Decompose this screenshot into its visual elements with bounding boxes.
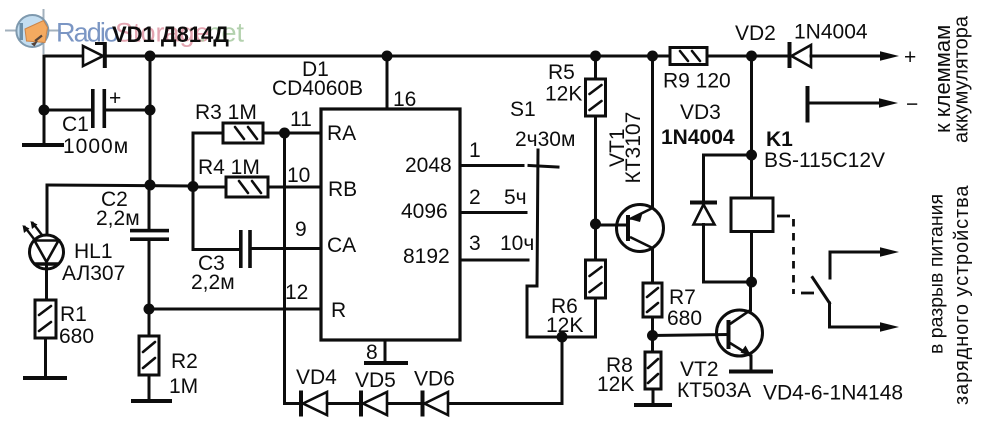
wire top rail right of R9 xyxy=(707,55,788,58)
svg-text:K1: K1 xyxy=(766,128,793,151)
wire R1 to ground xyxy=(44,338,47,377)
transistor VT1 KT3107 xyxy=(596,205,664,252)
wire S1 common xyxy=(527,150,596,337)
svg-text:1М: 1М xyxy=(169,375,198,398)
terminal bar input left xyxy=(24,143,62,147)
svg-text:8: 8 xyxy=(366,341,378,364)
ground pin8 xyxy=(366,361,406,365)
svg-text:2ч30м: 2ч30м xyxy=(515,128,575,151)
wire C1 left xyxy=(44,109,92,112)
svg-text:−: − xyxy=(906,93,918,116)
svg-text:КТ3107: КТ3107 xyxy=(622,112,645,184)
IC D1 CD4060B xyxy=(321,109,460,340)
svg-text:+: + xyxy=(109,87,121,110)
wire VT2 collector up xyxy=(749,282,752,310)
wire LED drop xyxy=(46,185,49,235)
svg-text:2,2м: 2,2м xyxy=(191,271,235,294)
svg-text:1000м: 1000м xyxy=(63,135,129,158)
wire relay rail lower xyxy=(750,232,753,283)
svg-text:+: + xyxy=(904,46,916,69)
svg-text:5ч: 5ч xyxy=(504,186,527,209)
wire C2 bottom xyxy=(148,241,151,309)
svg-text:RA: RA xyxy=(327,122,356,145)
ground R8 xyxy=(636,403,670,407)
wire VT2 base row xyxy=(653,335,727,336)
node dot R7/R8/VT2 base xyxy=(647,330,658,341)
resistor R6 12K xyxy=(586,260,606,298)
svg-text:3: 3 xyxy=(469,232,481,255)
dashed link relay to contact xyxy=(777,216,814,294)
svg-text:1N4004: 1N4004 xyxy=(794,21,868,44)
switch S1 selector tick xyxy=(529,166,558,168)
svg-text:CD4060B: CD4060B xyxy=(272,77,363,100)
wire diode chain xyxy=(285,402,563,405)
wire VT1 emitter up xyxy=(651,56,654,208)
capacitor C1 1000м xyxy=(91,87,121,128)
LED HL1 АЛ307 xyxy=(23,221,64,269)
svg-text:АЛ307: АЛ307 xyxy=(62,262,125,285)
logo crosshair lines xyxy=(5,9,61,54)
svg-text:8192: 8192 xyxy=(403,245,450,268)
wire C3 to pin9 xyxy=(252,247,321,250)
node dot C1 left xyxy=(39,105,50,116)
node dot C2/R2/pin12 xyxy=(144,304,155,315)
node dot top rail / C1 rail xyxy=(145,51,156,62)
svg-text:VD3: VD3 xyxy=(680,101,721,124)
wire VD3 top branch xyxy=(704,155,752,201)
svg-text:R: R xyxy=(331,299,346,322)
resistor R9 120 xyxy=(670,48,707,65)
svg-text:Radio: Radio xyxy=(56,18,118,48)
wire C1 right xyxy=(106,109,150,112)
svg-text:R2: R2 xyxy=(171,350,198,373)
svg-text:9: 9 xyxy=(295,218,307,241)
svg-text:R4 1М: R4 1М xyxy=(198,156,260,179)
svg-text:R3 1М: R3 1М xyxy=(195,101,257,124)
wire R5 bottom lead xyxy=(594,116,597,224)
svg-text:11: 11 xyxy=(290,108,312,131)
svg-text:R5: R5 xyxy=(548,61,575,84)
svg-text:R9 120: R9 120 xyxy=(663,70,731,93)
wire drop to diode chain xyxy=(561,337,564,404)
wire C3 left lead xyxy=(193,248,239,251)
svg-text:BS-115C12V: BS-115C12V xyxy=(764,149,885,172)
wire VD3 bottom branch xyxy=(704,225,752,283)
svg-text:VD5: VD5 xyxy=(355,369,396,392)
svg-text:КТ503А: КТ503А xyxy=(677,379,751,402)
svg-text:R1: R1 xyxy=(60,303,87,326)
svg-text:HL1: HL1 xyxy=(74,240,113,263)
node dot relay rail top xyxy=(746,51,757,62)
svg-text:VD2: VD2 xyxy=(735,22,776,45)
node dot VD3 top xyxy=(746,150,757,161)
wire pin8 xyxy=(384,340,387,362)
svg-text:VD4: VD4 xyxy=(296,366,337,389)
svg-text:680: 680 xyxy=(59,325,94,348)
svg-text:1: 1 xyxy=(469,139,481,162)
wire R7 bottom xyxy=(651,317,654,352)
wire R6 top lead xyxy=(594,224,597,260)
ground VT2 xyxy=(731,370,771,374)
logo text RadioStorage.net xyxy=(56,18,245,48)
wire VT2 emitter down xyxy=(750,356,753,370)
wire R8 bottom xyxy=(652,389,655,404)
resistor R8 12K xyxy=(645,352,661,389)
wire R2 top xyxy=(148,309,151,336)
node dot C1 right xyxy=(145,105,156,116)
svg-text:VT2: VT2 xyxy=(680,358,719,381)
wire pin3 xyxy=(460,259,528,262)
wire pin12 row xyxy=(149,308,321,311)
node dot osc rail xyxy=(188,181,199,192)
wire R4 to pin10 xyxy=(268,186,321,189)
wire top rail center xyxy=(106,55,670,58)
transistor VT2 KT503A xyxy=(717,310,763,357)
wire node row y185 xyxy=(47,185,192,186)
svg-text:аккумулятора: аккумулятора xyxy=(951,15,973,143)
ground R2 xyxy=(133,399,170,403)
wire to minus terminal xyxy=(808,102,883,105)
wire R6 bottom lead xyxy=(594,298,597,337)
diode VD5 xyxy=(359,391,387,417)
svg-text:4096: 4096 xyxy=(401,200,448,223)
svg-text:12: 12 xyxy=(285,281,308,304)
svg-text:VD4-6-1N4148: VD4-6-1N4148 xyxy=(763,382,903,405)
ground R1 xyxy=(25,376,65,380)
node dot rail/C2 xyxy=(145,180,156,191)
svg-text:C1: C1 xyxy=(62,113,89,136)
svg-text:1N4004: 1N4004 xyxy=(661,126,735,149)
svg-text:RB: RB xyxy=(328,178,357,201)
wire R4 left lead xyxy=(193,186,226,189)
wire R3 to pin11 xyxy=(263,132,321,135)
wire C2 top xyxy=(148,185,151,230)
diode VD2 1N4004 xyxy=(788,42,812,68)
diode VD6 xyxy=(421,391,449,417)
svg-text:2048: 2048 xyxy=(405,154,452,177)
svg-text:12K: 12K xyxy=(597,373,634,396)
svg-text:16: 16 xyxy=(393,88,416,111)
wire to plus terminal xyxy=(811,55,884,58)
capacitor C2 2,2м xyxy=(130,229,169,241)
svg-text:VD6: VD6 xyxy=(414,368,455,391)
wire R2 bottom xyxy=(148,375,151,400)
svg-text:R7: R7 xyxy=(669,286,696,309)
svg-text:12K: 12K xyxy=(546,314,583,337)
node dot S1/R6 row xyxy=(557,332,568,343)
svg-text:10: 10 xyxy=(287,164,310,187)
svg-text:2: 2 xyxy=(469,186,481,209)
svg-text:2,2м: 2,2м xyxy=(96,207,140,230)
wire R5 top lead xyxy=(594,56,597,79)
wire R3 left lead xyxy=(193,132,223,135)
svg-text:VD1 Д814Д: VD1 Д814Д xyxy=(112,22,229,47)
diode VD1 (zener) xyxy=(83,42,107,68)
wire pin11 vertical to diode chain xyxy=(283,133,286,404)
svg-text:зарядного устройства: зарядного устройства xyxy=(951,185,973,405)
wire oscillator rail xyxy=(192,133,195,250)
node dot pin16 xyxy=(382,51,393,62)
diode VD3 1N4004 xyxy=(690,201,717,225)
switch contact upper xyxy=(830,252,884,278)
wire LED to R1 xyxy=(45,266,48,300)
resistor R5 12K xyxy=(586,79,606,116)
wire VT1 collector down xyxy=(651,248,654,283)
svg-text:12K: 12K xyxy=(545,83,582,106)
wire relay rail upper xyxy=(750,56,753,198)
resistor R3 1M xyxy=(223,123,263,143)
svg-text:CA: CA xyxy=(327,234,356,257)
relay K1 BS-115C12V coil xyxy=(731,198,773,232)
wire top rail left xyxy=(44,56,83,145)
resistor R1 680 xyxy=(35,300,56,338)
node dot VT1 base xyxy=(590,219,601,230)
resistor R7 680 xyxy=(643,283,662,317)
diode VD4 xyxy=(299,391,327,417)
node dot pin11 xyxy=(279,128,290,139)
wire pin16 xyxy=(386,56,389,109)
wire C1 rail vertical xyxy=(149,56,152,185)
switch arm xyxy=(813,278,830,304)
wire pin2 xyxy=(460,211,526,214)
node dot VT1 emitter rail xyxy=(647,51,658,62)
capacitor C3 2,2м xyxy=(239,230,252,268)
logo circle xyxy=(16,15,48,47)
svg-text:S1: S1 xyxy=(510,98,536,121)
node dot relay bottom xyxy=(746,277,757,288)
minus terminal bar xyxy=(806,88,810,121)
node dot R5 top xyxy=(590,51,601,62)
svg-text:10ч: 10ч xyxy=(500,232,534,255)
svg-text:в разрыв питания: в разрыв питания xyxy=(926,194,948,354)
switch contact lower xyxy=(830,303,885,327)
resistor R2 1M xyxy=(139,336,159,375)
wire pin1 xyxy=(460,164,523,167)
svg-text:680: 680 xyxy=(667,307,702,330)
resistor R4 1M xyxy=(226,177,268,197)
